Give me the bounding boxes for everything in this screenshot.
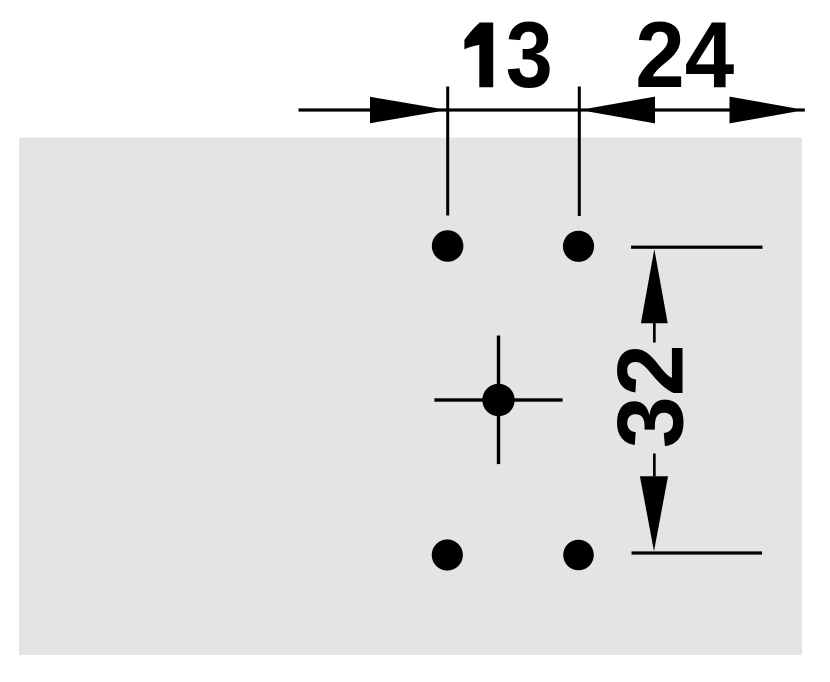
hole bottom-right [563,540,594,571]
arrowhead pointing right at panel right edge [730,97,805,124]
panel (gray workpiece) [19,138,802,656]
arrowhead pointing down at bottom extension line [640,476,668,551]
dimension line (top horizontal) [299,108,805,111]
center mark cross vertical [497,336,500,465]
extension line top of 32 dimension [631,246,763,249]
extension line bottom of 32 dimension [632,551,763,554]
extension line right (x=579.3) [578,87,581,217]
center mark cross horizontal [434,398,562,401]
extension line left (x=447.7) [446,87,449,216]
hole top-right [563,231,594,262]
svg-text:32: 32 [598,344,703,448]
arrowhead pointing right at left extension line [370,97,448,123]
svg-text:3: 3 [506,2,553,107]
svg-text:24: 24 [635,2,734,107]
center hole [482,384,514,416]
hole top-left [432,230,464,262]
dimension line stub above 32 [653,322,656,343]
label 13 digit 1 [464,23,493,88]
hole bottom-left [432,539,463,570]
dimension line stub below 32 [653,454,656,477]
arrowhead pointing left at right extension line [580,97,656,124]
arrowhead pointing up at top extension line [641,249,668,323]
